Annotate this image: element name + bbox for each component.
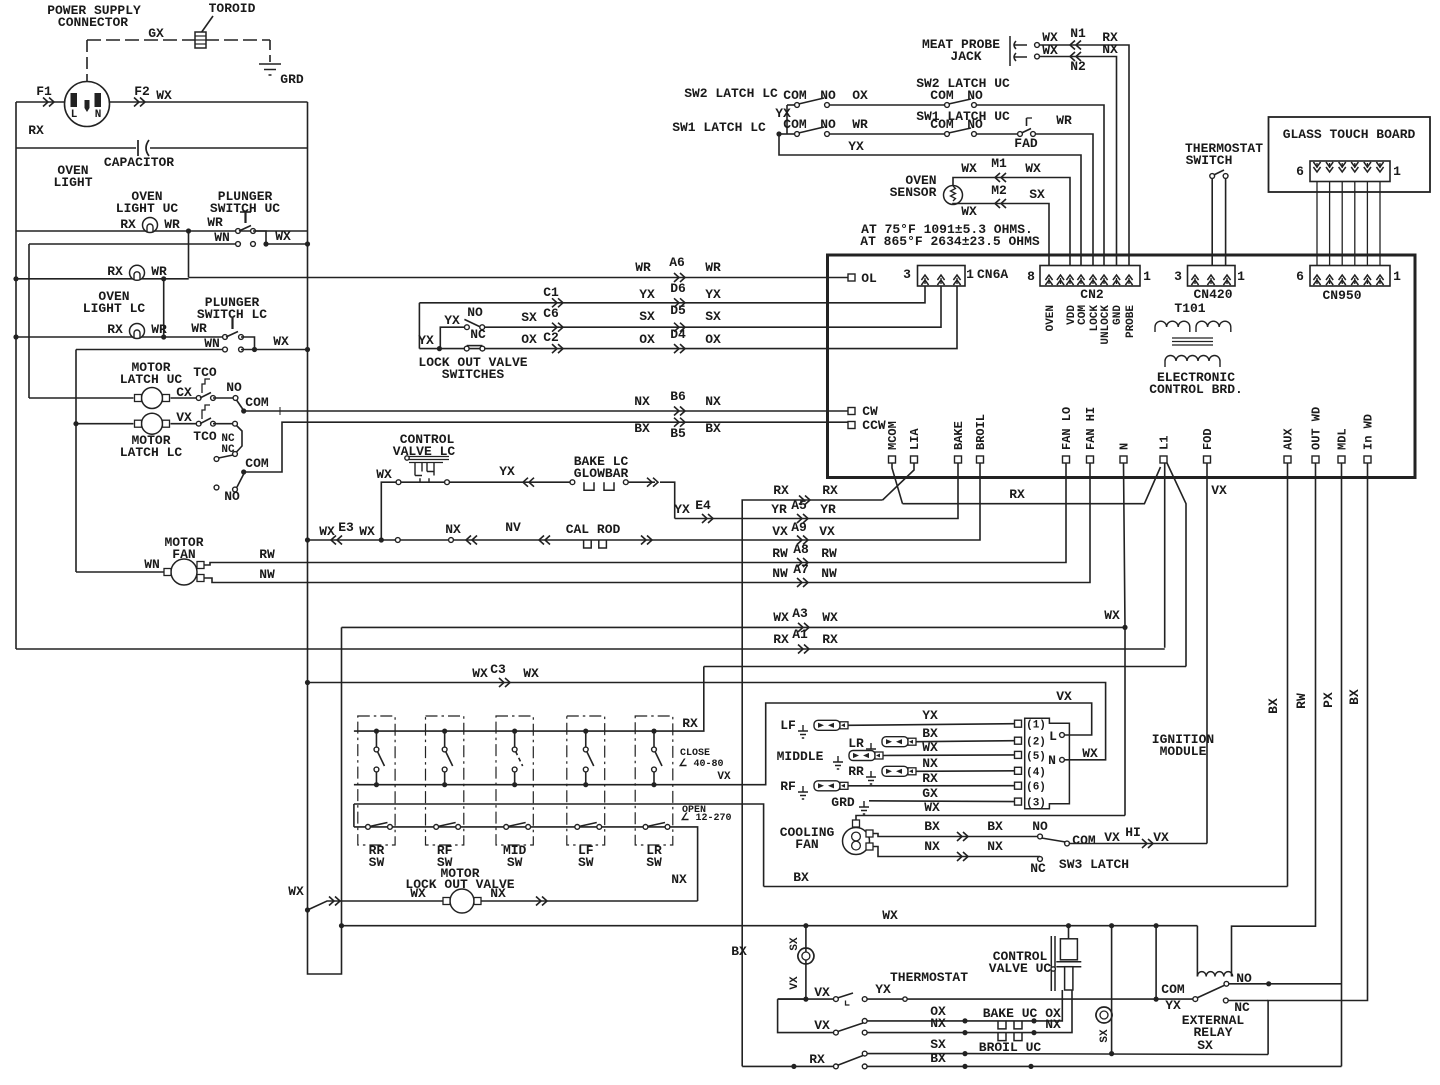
wire TCO to NO <box>213 397 233 399</box>
svg-text:MDL: MDL <box>1336 428 1350 450</box>
lamp OVEN LIGHT LC upper <box>130 265 145 280</box>
svg-text:6: 6 <box>1296 269 1304 284</box>
svg-text:LIGHT LC: LIGHT LC <box>83 301 146 316</box>
wire LIA to RX row <box>883 463 914 500</box>
external relay coil <box>1197 972 1232 977</box>
lamp OVEN LIGHT UC <box>143 218 158 233</box>
svg-text:WX: WX <box>1082 746 1098 761</box>
wire open switch row <box>354 827 698 901</box>
switch SW1 latch UC <box>945 132 950 137</box>
svg-text:RW: RW <box>259 547 275 562</box>
wire COM2 BX B5 row to CCW <box>244 422 848 472</box>
svg-text:VX: VX <box>772 524 788 539</box>
wire AUX vertical BX <box>1287 463 1289 887</box>
svg-text:(6): (6) <box>1026 782 1046 794</box>
svg-text:6: 6 <box>1296 164 1304 179</box>
svg-text:LF: LF <box>780 718 796 733</box>
svg-text:YX: YX <box>499 464 515 479</box>
wire YX E4 YR A5 row <box>675 463 958 519</box>
terminal AUX <box>1284 456 1291 463</box>
svg-text:WR: WR <box>164 217 180 232</box>
svg-text:YX: YX <box>848 139 864 154</box>
svg-text:BX: BX <box>634 421 650 436</box>
wire OX row SW2 <box>829 104 945 106</box>
wire bank feed row <box>704 666 1186 668</box>
svg-text:WX: WX <box>1042 43 1058 58</box>
svg-text:VX: VX <box>1211 483 1227 498</box>
svg-text:∠ 40-80: ∠ 40-80 <box>679 758 724 770</box>
svg-text:SW: SW <box>578 855 594 870</box>
wire GX to pin 3 <box>869 800 1015 803</box>
terminal BAKE <box>955 456 962 463</box>
svg-text:GRD: GRD <box>831 795 855 810</box>
svg-text:NO: NO <box>967 117 983 132</box>
toroid T1 <box>195 32 206 48</box>
pin (5) <box>1015 751 1022 758</box>
svg-text:SW1 LATCH LC: SW1 LATCH LC <box>672 120 766 135</box>
wire central vertical lower <box>308 102 342 974</box>
svg-text:LR: LR <box>848 736 864 751</box>
wire RX L1 row <box>903 467 1161 504</box>
svg-text:VX: VX <box>717 771 731 783</box>
svg-text:NO: NO <box>820 117 836 132</box>
wire M1 WX row <box>953 178 1070 268</box>
svg-text:YX: YX <box>1165 998 1181 1013</box>
svg-text:3: 3 <box>903 267 911 282</box>
wire C1 D6 YX row <box>419 286 925 303</box>
capacitor C1 <box>137 140 139 156</box>
svg-text:1: 1 <box>966 267 974 282</box>
switch LR SW upper <box>635 716 673 845</box>
wire WR row to CN2 <box>1035 134 1093 268</box>
external relay <box>1193 997 1198 1002</box>
svg-text:WX: WX <box>882 908 898 923</box>
switch RR SW upper <box>358 716 395 845</box>
motor MOTOR FAN <box>171 559 197 585</box>
svg-text:NX: NX <box>1102 42 1118 57</box>
svg-text:(5): (5) <box>1026 751 1046 763</box>
wire thermostat left loop <box>778 998 806 1000</box>
control valve LC symbol <box>405 456 409 460</box>
latch LC NO contacts <box>214 485 219 490</box>
svg-text:PX: PX <box>1321 692 1336 708</box>
svg-text:NX: NX <box>445 522 461 537</box>
wires glass touch board to CN950 <box>1316 182 1318 266</box>
svg-text:NX: NX <box>930 1016 946 1031</box>
heater BAKE UC <box>998 1021 1022 1029</box>
svg-text:B6: B6 <box>670 389 686 404</box>
grommet SX <box>798 948 814 964</box>
switch blade NO <box>464 319 482 328</box>
wire WX to lock out valve <box>308 901 444 910</box>
svg-text:WX: WX <box>1104 608 1120 623</box>
svg-text:LIGHT UC: LIGHT UC <box>116 201 179 216</box>
wire WX long row <box>342 925 1198 927</box>
svg-text:CN2: CN2 <box>1080 287 1104 302</box>
svg-text:1: 1 <box>1143 269 1151 284</box>
svg-text:BAKE: BAKE <box>952 421 966 450</box>
svg-text:T101: T101 <box>1174 301 1205 316</box>
svg-text:D6: D6 <box>670 281 686 296</box>
svg-text:A3: A3 <box>792 606 808 621</box>
wire YX to pin 1 <box>848 724 1015 726</box>
node lamp LC upper junction <box>161 276 166 281</box>
svg-text:WX: WX <box>1025 161 1041 176</box>
svg-text:BX: BX <box>987 819 1003 834</box>
wire N1 RX row <box>1035 43 1040 48</box>
svg-text:BAKE UC: BAKE UC <box>983 1006 1038 1021</box>
svg-text:BX: BX <box>731 944 747 959</box>
wire RW A8 row <box>204 463 1066 565</box>
svg-text:A1: A1 <box>792 627 808 642</box>
svg-text:WN: WN <box>144 557 160 572</box>
svg-text:SW: SW <box>507 855 523 870</box>
wire YX feed <box>440 327 464 348</box>
node WX junction <box>1122 625 1127 630</box>
wire FOD vertical <box>1206 463 1208 844</box>
motor LOCK OUT VALVE <box>450 889 474 913</box>
wire L1 to bank RX feed <box>1167 463 1186 667</box>
svg-text:COM: COM <box>783 117 807 132</box>
wire WX A3 row <box>342 626 1126 628</box>
wire OX row bake <box>867 1020 1060 1022</box>
svg-text:RX: RX <box>107 322 123 337</box>
svg-text:NX: NX <box>987 839 1003 854</box>
wire WX fan top <box>856 816 1125 821</box>
svg-text:E3: E3 <box>338 520 354 535</box>
svg-text:M1: M1 <box>991 156 1007 171</box>
svg-text:WN: WN <box>214 230 230 245</box>
svg-text:SW3 LATCH: SW3 LATCH <box>1059 857 1129 872</box>
svg-text:RW: RW <box>772 546 788 561</box>
wire WX row drop to relay coil <box>1196 926 1198 977</box>
svg-text:YR: YR <box>771 502 787 517</box>
heater BAKE LC GLOWBAR <box>584 482 614 490</box>
svg-text:GLASS TOUCH BOARD: GLASS TOUCH BOARD <box>1283 127 1416 142</box>
svg-text:NO: NO <box>820 88 836 103</box>
terminal OL <box>848 274 855 281</box>
svg-text:1: 1 <box>1393 164 1401 179</box>
wire lamp parallel vertical <box>163 279 165 337</box>
svg-text:AT 865°F 2634±23.5 OHMS: AT 865°F 2634±23.5 OHMS <box>860 234 1040 249</box>
terminal CCW <box>848 422 855 429</box>
svg-text:COM: COM <box>245 395 269 410</box>
svg-text:CN420: CN420 <box>1193 287 1232 302</box>
wire WX to pin 5 <box>883 754 1015 757</box>
switch MID SW upper <box>496 716 533 845</box>
svg-text:WX: WX <box>472 666 488 681</box>
svg-text:MODULE: MODULE <box>1160 744 1207 759</box>
wire COM2 <box>241 469 246 474</box>
svg-text:NO: NO <box>1032 819 1048 834</box>
svg-text:COM: COM <box>930 117 954 132</box>
svg-text:RR: RR <box>848 764 864 779</box>
svg-text:(3): (3) <box>1026 798 1046 810</box>
motor MOTOR LATCH LC <box>142 413 163 434</box>
latch LC lower contacts <box>214 457 219 462</box>
wire OPEN feed line <box>353 804 355 827</box>
meat probe jack symbol <box>1010 36 1027 66</box>
svg-text:E4: E4 <box>695 498 711 513</box>
svg-text:C6: C6 <box>543 306 559 321</box>
pin (4) <box>1015 767 1022 774</box>
svg-text:C1: C1 <box>543 285 559 300</box>
ground GRD <box>259 64 281 75</box>
wire lamp LC upper row <box>16 278 189 280</box>
svg-text:YX: YX <box>705 287 721 302</box>
svg-text:VX: VX <box>1104 830 1120 845</box>
svg-text:VX: VX <box>1153 830 1169 845</box>
svg-text:OX: OX <box>639 332 655 347</box>
svg-text:SWITCHES: SWITCHES <box>442 367 505 382</box>
svg-text:WX: WX <box>376 467 392 482</box>
wire thermostat to CN420 <box>1211 178 1213 265</box>
wire M2 SX row <box>953 204 1049 268</box>
svg-text:L: L <box>1049 729 1057 744</box>
svg-text:RX: RX <box>1009 487 1025 502</box>
svg-text:COM: COM <box>245 456 269 471</box>
svg-text:FAN: FAN <box>795 837 818 852</box>
svg-text:NV: NV <box>505 520 521 535</box>
switch RF SW lower open <box>434 825 439 830</box>
svg-text:WX: WX <box>288 884 304 899</box>
grommet SX 2 <box>1096 1007 1112 1023</box>
wire WN LC row left <box>76 349 223 351</box>
svg-text:8: 8 <box>1027 269 1035 284</box>
svg-text:WX: WX <box>275 229 291 244</box>
switch SW3 latch <box>1042 838 1066 842</box>
svg-text:∠ 12-270: ∠ 12-270 <box>681 812 732 824</box>
wire LC switch jumper <box>241 337 255 350</box>
svg-text:SW2 LATCH LC: SW2 LATCH LC <box>684 86 778 101</box>
wire N2 NX row <box>1035 54 1040 59</box>
svg-text:NX: NX <box>705 394 721 409</box>
svg-text:NC: NC <box>1030 861 1046 876</box>
svg-text:SW: SW <box>646 855 662 870</box>
svg-text:M2: M2 <box>991 183 1007 198</box>
svg-text:CAPACITOR: CAPACITOR <box>104 155 174 170</box>
svg-text:NX: NX <box>924 839 940 854</box>
svg-text:3: 3 <box>1174 269 1182 284</box>
wire bake to valve <box>1060 990 1062 1021</box>
svg-text:WX: WX <box>359 524 375 539</box>
wire UC switch jumper <box>253 231 266 244</box>
wire BX fan row <box>873 834 1038 837</box>
svg-text:OVEN: OVEN <box>1045 305 1057 331</box>
svg-text:N: N <box>1048 753 1056 768</box>
switch RR SW lower open <box>366 825 371 830</box>
node dots on left vertical <box>13 276 18 281</box>
svg-text:SX: SX <box>521 310 537 325</box>
svg-text:LATCH LC: LATCH LC <box>120 445 183 460</box>
svg-text:NO: NO <box>226 380 242 395</box>
wire LC motor to TCO <box>171 423 197 425</box>
svg-text:WX: WX <box>822 610 838 625</box>
lock out valve switches bracket <box>418 303 420 349</box>
pin (6) <box>1015 782 1022 789</box>
svg-text:AUX: AUX <box>1282 428 1296 450</box>
terminal BROIL <box>977 456 984 463</box>
svg-text:MCOM: MCOM <box>886 421 900 450</box>
svg-text:D4: D4 <box>670 327 686 342</box>
svg-text:WX: WX <box>773 610 789 625</box>
svg-text:GX: GX <box>148 26 164 41</box>
svg-text:RX: RX <box>120 217 136 232</box>
svg-text:BX: BX <box>793 870 809 885</box>
wire glowbar to E4 <box>628 481 655 483</box>
motor COOLING FAN <box>843 828 870 855</box>
svg-text:A7: A7 <box>793 562 809 577</box>
terminal FAN HI <box>1087 456 1094 463</box>
node lamp UC junction <box>186 228 191 233</box>
wire NX row broil <box>867 1032 1070 1034</box>
svg-text:CN6A: CN6A <box>977 267 1008 282</box>
svg-text:NW: NW <box>772 566 788 581</box>
svg-text:RF: RF <box>780 779 796 794</box>
switch RF SW upper <box>426 716 464 845</box>
wire C2 D4 OX row <box>419 286 957 349</box>
svg-text:WX: WX <box>523 666 539 681</box>
terminal MCOM <box>889 456 896 463</box>
svg-text:UNLOCK: UNLOCK <box>1100 305 1112 345</box>
wire COM NX B6 row to CW <box>244 410 848 412</box>
svg-text:SX: SX <box>705 309 721 324</box>
latch switch UC blade to COM <box>237 400 244 411</box>
wire left main vertical <box>15 102 17 649</box>
svg-text:WR: WR <box>1056 113 1072 128</box>
svg-text:COM: COM <box>1072 833 1096 848</box>
svg-text:WR: WR <box>705 260 721 275</box>
svg-text:NW: NW <box>259 567 275 582</box>
wire NX to pin 4 <box>916 770 1015 773</box>
pin (3) <box>1015 798 1022 805</box>
svg-text:F1: F1 <box>36 84 52 99</box>
switch SW2 latch LC <box>787 104 795 106</box>
svg-text:COM: COM <box>1077 305 1089 325</box>
switch FAD <box>1018 132 1023 137</box>
svg-text:WR: WR <box>207 215 223 230</box>
wire NW A7 row <box>204 463 1090 583</box>
svg-text:WX: WX <box>319 524 335 539</box>
wire NC to In WD path <box>1228 1000 1268 1002</box>
terminal In WD <box>1364 456 1371 463</box>
svg-text:TCO: TCO <box>193 429 217 444</box>
svg-text:WX: WX <box>156 88 172 103</box>
svg-text:YX: YX <box>418 333 434 348</box>
wire thermostat row 1 <box>778 998 834 1000</box>
svg-text:C3: C3 <box>490 662 506 677</box>
ignition module outline <box>1025 718 1070 809</box>
svg-text:L1: L1 <box>1158 436 1172 450</box>
svg-text:COM: COM <box>1161 982 1185 997</box>
svg-text:RX: RX <box>773 632 789 647</box>
svg-text:SX: SX <box>1099 1029 1111 1043</box>
svg-text:GRD: GRD <box>280 72 304 87</box>
svg-text:LIGHT: LIGHT <box>53 175 92 190</box>
wire WR riser to A6 row <box>188 231 190 278</box>
svg-text:L: L <box>71 109 78 121</box>
terminal CW <box>848 408 855 415</box>
svg-text:BX: BX <box>922 726 938 741</box>
wire BX bottom of ignition area <box>764 886 1288 888</box>
wire MCOM to L1 RX row <box>892 463 903 504</box>
switch blade closed <box>467 345 483 347</box>
wire glowbar row left drop <box>381 482 398 540</box>
wire NX from valve <box>481 900 698 902</box>
svg-text:COM: COM <box>930 88 954 103</box>
svg-text:NX: NX <box>1045 1017 1061 1032</box>
svg-text:B5: B5 <box>670 426 686 441</box>
wire N vertical <box>1124 463 1126 816</box>
svg-text:1: 1 <box>1393 269 1401 284</box>
svg-text:CAL ROD: CAL ROD <box>566 522 621 537</box>
wire RX row <box>742 500 882 1066</box>
terminal LIA <box>911 456 918 463</box>
svg-text:WX: WX <box>961 161 977 176</box>
wire WX E3 cal rod VX A9 row <box>308 463 981 540</box>
svg-text:WR: WR <box>852 117 868 132</box>
switch MID SW lower open <box>504 825 509 830</box>
wire NO row to MDL <box>1229 983 1342 985</box>
svg-text:(4): (4) <box>1026 767 1046 779</box>
svg-text:VALVE UC: VALVE UC <box>989 961 1052 976</box>
wire GX dashed <box>87 39 196 41</box>
svg-text:VX: VX <box>819 524 835 539</box>
oven sensor RTD <box>944 186 963 205</box>
svg-text:TCO: TCO <box>193 365 217 380</box>
svg-text:BX: BX <box>930 1051 946 1066</box>
svg-text:CW: CW <box>862 404 878 419</box>
svg-text:RX: RX <box>107 264 123 279</box>
svg-text:BX: BX <box>1347 689 1362 705</box>
wire WX C3 row <box>308 683 1106 760</box>
svg-text:BX: BX <box>924 819 940 834</box>
svg-text:(2): (2) <box>1026 737 1046 749</box>
svg-text:THERMOSTAT: THERMOSTAT <box>890 970 968 985</box>
contact L <box>1060 733 1065 738</box>
svg-text:SWITCH UC: SWITCH UC <box>210 201 280 216</box>
svg-text:NX: NX <box>922 756 938 771</box>
terminal FAN LO <box>1063 456 1070 463</box>
svg-text:SX: SX <box>639 309 655 324</box>
svg-text:WX: WX <box>961 204 977 219</box>
terminal FOD <box>1204 456 1211 463</box>
lamp OVEN LIGHT LC lower <box>130 324 145 339</box>
motor MOTOR LATCH UC <box>142 388 163 409</box>
svg-text:CCW: CCW <box>862 418 886 433</box>
switch LR SW lower open <box>643 825 648 830</box>
wire COM riser <box>1155 926 1157 999</box>
wire F2 WX <box>110 101 308 103</box>
svg-text:RW: RW <box>821 546 837 561</box>
svg-text:RX: RX <box>682 716 698 731</box>
contact N <box>1060 757 1065 762</box>
svg-text:NX: NX <box>634 394 650 409</box>
svg-text:SWITCH: SWITCH <box>1186 153 1233 168</box>
wire F1 <box>16 101 65 103</box>
terminal MDL <box>1338 456 1345 463</box>
pin (2) <box>1015 737 1022 744</box>
heater CAL ROD <box>584 540 607 548</box>
svg-text:OX: OX <box>852 88 868 103</box>
wire WN WX row UC <box>29 243 236 245</box>
svg-text:WX: WX <box>922 740 938 755</box>
svg-text:RW: RW <box>1294 693 1309 709</box>
svg-text:WX: WX <box>410 886 426 901</box>
svg-text:1: 1 <box>1237 269 1245 284</box>
wire OUT WD vertical RW <box>1232 463 1316 977</box>
svg-text:VX: VX <box>814 1018 830 1033</box>
